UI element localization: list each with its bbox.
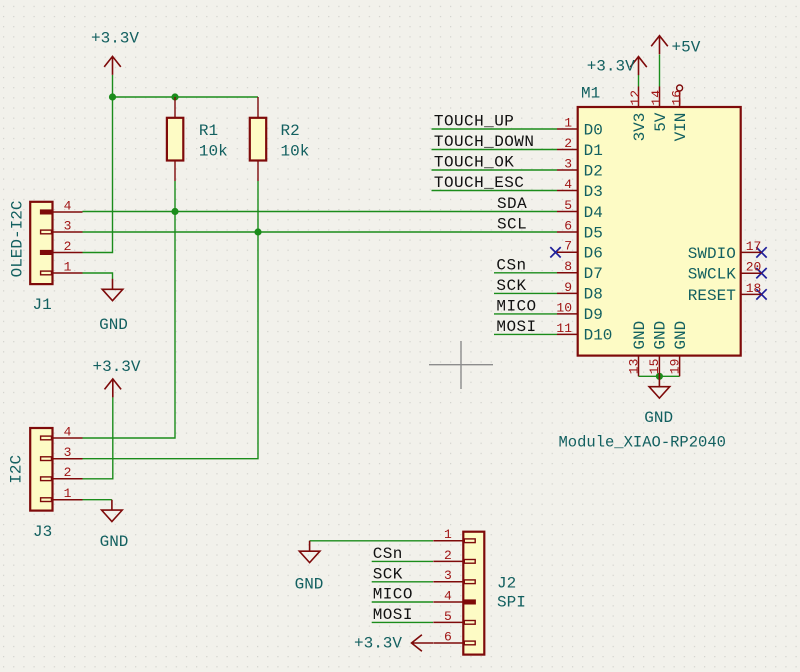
M1 pin 10 (D9) bbox=[557, 313, 578, 315]
J2 pin 1 bbox=[433, 540, 463, 542]
M1 pin 4 (D3) bbox=[557, 190, 578, 192]
svg-text:3: 3 bbox=[564, 156, 572, 171]
svg-text:D6: D6 bbox=[584, 245, 603, 263]
svg-text:D8: D8 bbox=[584, 286, 603, 304]
svg-text:GND: GND bbox=[652, 321, 670, 350]
svg-text:SPI: SPI bbox=[497, 594, 526, 612]
connector J1 body bbox=[30, 202, 52, 284]
wire M1 gnd pins bbox=[639, 375, 680, 377]
svg-text:5: 5 bbox=[564, 198, 572, 213]
svg-text:SWCLK: SWCLK bbox=[688, 266, 736, 284]
svg-text:MICO: MICO bbox=[496, 297, 536, 315]
svg-text:3: 3 bbox=[64, 218, 72, 233]
svg-text:15: 15 bbox=[647, 359, 662, 375]
M1 pin 9 (D8) bbox=[557, 292, 578, 294]
svg-text:8: 8 bbox=[564, 259, 572, 274]
wire J3 pin1 to GND bbox=[83, 499, 112, 501]
M1 pin 18 (RESET) bbox=[741, 293, 762, 295]
no-connect M1 pin 7 bbox=[550, 247, 560, 257]
module M1 Module_XIAO-RP2040 body bbox=[578, 107, 741, 356]
M1 pin 14 (5V) bbox=[659, 87, 661, 108]
svg-text:19: 19 bbox=[667, 359, 682, 375]
svg-text:10k: 10k bbox=[199, 142, 228, 160]
svg-text:12: 12 bbox=[628, 90, 643, 106]
svg-text:4: 4 bbox=[64, 424, 72, 439]
M1 pin 3 (D2) bbox=[557, 169, 578, 171]
M1 pin 12 (3V3) bbox=[638, 87, 640, 108]
M1 pin 2 (D1) bbox=[557, 149, 578, 151]
M1 pin 16 (VIN), unconnected circle bbox=[679, 91, 681, 107]
svg-text:11: 11 bbox=[556, 321, 572, 336]
M1 pin 13 (GND) bbox=[638, 356, 640, 377]
svg-text:2: 2 bbox=[64, 465, 72, 480]
power +3.3V (at J3) bbox=[105, 379, 122, 398]
junction SDA / R1 bottom bbox=[171, 208, 178, 215]
svg-text:+3.3V: +3.3V bbox=[91, 29, 139, 47]
svg-text:GND: GND bbox=[99, 316, 128, 334]
J3 pin 3 bbox=[53, 458, 83, 460]
svg-text:J2: J2 bbox=[497, 575, 516, 593]
M1 pin 1 (D0) bbox=[557, 128, 578, 130]
wire R1 bottom to J3 pin4 bbox=[83, 181, 176, 438]
wire MOSI at M1 bbox=[494, 333, 557, 335]
wire TOUCH_DOWN bbox=[432, 149, 558, 151]
power +3.3V (at M1) bbox=[630, 57, 647, 76]
wire 5V to M1 pin14 bbox=[659, 55, 661, 87]
svg-text:J3: J3 bbox=[33, 523, 52, 541]
J1 pin 3 bbox=[53, 231, 83, 233]
wire R2 bottom to J3 pin3 bbox=[83, 181, 259, 459]
J1 pin 1 bbox=[53, 272, 83, 274]
svg-text:GND: GND bbox=[672, 321, 690, 350]
svg-text:1: 1 bbox=[64, 486, 72, 501]
power +5V (at M1) bbox=[651, 36, 668, 55]
M1 pin 19 (GND) bbox=[679, 356, 681, 377]
ground (below M1) bbox=[649, 376, 670, 398]
junction M1 GND pins bbox=[656, 373, 663, 380]
svg-text:CSn: CSn bbox=[496, 256, 526, 274]
svg-text:20: 20 bbox=[746, 260, 762, 275]
J2 pin 5 bbox=[433, 621, 463, 623]
J3 pin 2 bbox=[53, 478, 83, 480]
svg-text:Module_XIAO-RP2040: Module_XIAO-RP2040 bbox=[559, 434, 726, 452]
wire SDA net bbox=[83, 211, 558, 213]
svg-text:1: 1 bbox=[64, 259, 72, 274]
svg-text:D5: D5 bbox=[584, 224, 603, 242]
svg-text:+3.3V: +3.3V bbox=[354, 635, 402, 653]
svg-text:OLED-I2C: OLED-I2C bbox=[8, 201, 26, 278]
svg-text:3V3: 3V3 bbox=[631, 113, 649, 142]
ground (at J2) bbox=[299, 541, 320, 563]
svg-text:6: 6 bbox=[444, 629, 452, 644]
wire MICO at M1 bbox=[494, 313, 557, 315]
svg-text:TOUCH_UP: TOUCH_UP bbox=[434, 113, 514, 131]
svg-text:MICO: MICO bbox=[373, 586, 413, 604]
svg-text:2: 2 bbox=[64, 239, 72, 254]
wire SCK at M1 bbox=[494, 292, 557, 294]
svg-text:2: 2 bbox=[564, 136, 572, 151]
svg-text:4: 4 bbox=[444, 588, 452, 603]
ground (below J3) bbox=[102, 500, 123, 522]
svg-text:13: 13 bbox=[626, 359, 641, 375]
J2 pin 2 bbox=[433, 560, 463, 562]
svg-text:+3.3V: +3.3V bbox=[93, 358, 141, 376]
J2 pin 6 bbox=[433, 642, 463, 644]
svg-text:D1: D1 bbox=[584, 142, 603, 160]
wire 3V3 to M1 pin12 bbox=[638, 75, 640, 87]
connector J3 body bbox=[30, 428, 52, 511]
junction SCL / R2 bottom bbox=[254, 228, 261, 235]
svg-text:10: 10 bbox=[556, 300, 572, 315]
M1 pin 8 (D7) bbox=[557, 272, 578, 274]
no-connect M1 pin 17 bbox=[756, 247, 766, 257]
connector J2 body bbox=[463, 532, 484, 655]
wire J1 pin1 to GND bbox=[83, 273, 113, 279]
J1 pin 4 bbox=[53, 211, 83, 213]
wire +3.3V to J3 pin2 bbox=[83, 397, 113, 479]
J2 pin 3 bbox=[433, 581, 463, 583]
svg-text:TOUCH_ESC: TOUCH_ESC bbox=[434, 174, 524, 192]
wire TOUCH_ESC bbox=[432, 190, 558, 192]
svg-text:SCK: SCK bbox=[373, 565, 403, 583]
wire 3V3 rail top bbox=[113, 96, 259, 98]
M1 pin 15 (GND) bbox=[658, 356, 660, 377]
svg-text:2: 2 bbox=[444, 548, 452, 563]
svg-text:GND: GND bbox=[631, 321, 649, 350]
ground (below J1) bbox=[102, 279, 123, 301]
svg-text:6: 6 bbox=[564, 218, 572, 233]
svg-text:MOSI: MOSI bbox=[496, 318, 536, 336]
svg-text:SWDIO: SWDIO bbox=[688, 245, 736, 263]
wire J2 pin1 to GND bbox=[310, 540, 433, 542]
svg-text:18: 18 bbox=[746, 281, 762, 296]
svg-text:GND: GND bbox=[644, 409, 673, 427]
M1 pin 17 (SWDIO) bbox=[741, 251, 762, 253]
wire +3.3V to J1 pin2 bbox=[83, 75, 113, 253]
svg-text:R2: R2 bbox=[281, 122, 300, 140]
no-connect M1 pin 18 bbox=[756, 289, 766, 299]
M1 pin 7 (D6) bbox=[557, 251, 578, 253]
wire TOUCH_UP bbox=[432, 128, 558, 130]
svg-text:SCL: SCL bbox=[497, 216, 527, 234]
svg-text:D10: D10 bbox=[584, 327, 613, 345]
no-connect M1 pin 20 bbox=[756, 268, 766, 278]
wire SCK at J2 bbox=[372, 581, 433, 583]
svg-text:17: 17 bbox=[746, 239, 762, 254]
svg-text:D3: D3 bbox=[584, 183, 603, 201]
svg-text:M1: M1 bbox=[581, 84, 600, 102]
svg-text:CSn: CSn bbox=[373, 545, 403, 563]
wire TOUCH_OK bbox=[432, 169, 558, 171]
M1 pin 20 (SWCLK) bbox=[741, 272, 762, 274]
svg-text:D0: D0 bbox=[584, 121, 603, 139]
svg-text:3: 3 bbox=[64, 445, 72, 460]
svg-text:16: 16 bbox=[669, 90, 684, 106]
svg-text:GND: GND bbox=[100, 533, 129, 551]
M1 pin 6 (D5) bbox=[557, 231, 578, 233]
power +3.3V (top left) bbox=[104, 56, 121, 75]
svg-text:TOUCH_DOWN: TOUCH_DOWN bbox=[434, 133, 535, 151]
svg-text:D7: D7 bbox=[584, 265, 603, 283]
M1 pin 11 (D10) bbox=[557, 333, 578, 335]
svg-text:5: 5 bbox=[444, 609, 452, 624]
svg-text:TOUCH_OK: TOUCH_OK bbox=[434, 154, 514, 172]
power +3.3V (at J2, pointing left) bbox=[412, 635, 434, 652]
wire CSn at J2 bbox=[372, 560, 433, 562]
svg-text:VIN: VIN bbox=[672, 113, 690, 142]
svg-text:MOSI: MOSI bbox=[373, 606, 413, 624]
J3 pin 4 bbox=[53, 437, 83, 439]
svg-text:5V: 5V bbox=[652, 112, 670, 132]
svg-text:3: 3 bbox=[444, 568, 452, 583]
svg-text:+3.3V: +3.3V bbox=[587, 58, 635, 76]
svg-text:1: 1 bbox=[444, 527, 452, 542]
svg-text:7: 7 bbox=[564, 239, 572, 254]
svg-text:4: 4 bbox=[64, 198, 72, 213]
svg-text:10k: 10k bbox=[281, 142, 310, 160]
J2 pin 4 bbox=[433, 601, 463, 603]
svg-text:GND: GND bbox=[295, 576, 324, 594]
svg-text:J1: J1 bbox=[33, 296, 52, 314]
svg-text:D2: D2 bbox=[584, 162, 603, 180]
svg-text:SDA: SDA bbox=[497, 195, 527, 213]
svg-text:R1: R1 bbox=[199, 122, 218, 140]
M1 pin 5 (D4) bbox=[557, 211, 578, 213]
svg-text:D4: D4 bbox=[584, 204, 603, 222]
svg-text:RESET: RESET bbox=[688, 287, 736, 305]
svg-text:+5V: +5V bbox=[672, 39, 701, 57]
J3 pin 1 bbox=[53, 499, 83, 501]
svg-text:4: 4 bbox=[564, 177, 572, 192]
wire MOSI at J2 bbox=[372, 621, 433, 623]
svg-text:SCK: SCK bbox=[496, 277, 526, 295]
svg-text:D9: D9 bbox=[584, 306, 603, 324]
resistor R2 bbox=[250, 97, 266, 181]
wire MICO at J2 bbox=[372, 601, 433, 603]
wire CSn at M1 bbox=[494, 272, 557, 274]
svg-text:I2C: I2C bbox=[8, 455, 26, 484]
svg-text:14: 14 bbox=[649, 90, 664, 106]
junction 3V3 rail / R1 top bbox=[171, 93, 178, 100]
wire SCL net bbox=[83, 231, 558, 233]
svg-text:9: 9 bbox=[564, 280, 572, 295]
junction 3V3 rail / J1 branch bbox=[109, 93, 116, 100]
resistor R1 bbox=[167, 97, 183, 181]
J1 pin 2 bbox=[53, 252, 83, 254]
origin crosshair bbox=[429, 341, 493, 389]
svg-text:1: 1 bbox=[564, 115, 572, 130]
